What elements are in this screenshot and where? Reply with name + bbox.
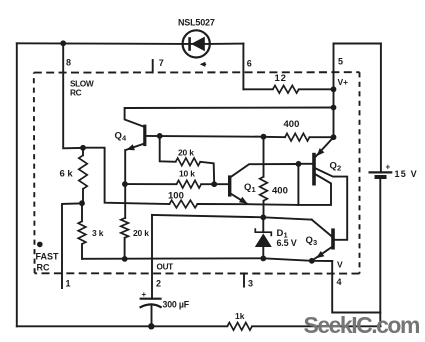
SLOW RC label <box>70 79 94 98</box>
Q1 collector wire <box>231 164 299 177</box>
Q2 base wire <box>299 163 313 165</box>
svg-text:12: 12 <box>275 73 287 84</box>
pin 8 wire <box>60 40 83 148</box>
svg-text:FAST: FAST <box>36 252 60 262</box>
wire: V- internal rail <box>82 258 332 261</box>
wire: 100 to Q2 base loop <box>197 203 298 206</box>
resistor 400 horizontal <box>264 119 334 141</box>
zener diode D1 <box>255 217 297 258</box>
svg-text:OUT: OUT <box>157 263 174 272</box>
svg-text:Q: Q <box>115 131 122 142</box>
svg-text:100: 100 <box>168 191 184 202</box>
svg-text:4: 4 <box>337 277 342 287</box>
Q1 emitter with arrow <box>231 194 248 204</box>
pin 1 wire <box>62 203 82 288</box>
node dot 20kv on rail <box>122 256 128 262</box>
resistor 6k <box>60 148 88 203</box>
wire: pin 4 drop and battery link <box>332 260 380 313</box>
light arrow under LED <box>200 62 206 67</box>
svg-text:1: 1 <box>66 279 71 289</box>
svg-text:RC: RC <box>70 88 82 98</box>
node dot 6k/3k/pin1 <box>79 200 85 206</box>
wire: bottom rail left of 1k <box>17 325 228 327</box>
battery 15V <box>369 44 418 327</box>
Q4 base wire to 400h <box>146 135 263 138</box>
node dot pin8/6k <box>80 145 86 151</box>
wire: Q4 collector rail <box>125 108 334 127</box>
resistor 400 vertical <box>260 137 288 218</box>
node dot Q3 emitter on rail <box>309 258 315 264</box>
svg-text:NSL5027: NSL5027 <box>178 18 215 28</box>
svg-text:6: 6 <box>247 59 252 69</box>
svg-text:3: 3 <box>248 279 253 289</box>
Q2 lower lead loop to base node <box>298 164 331 205</box>
svg-text:SeekIC.com: SeekIC.com <box>304 312 420 338</box>
svg-text:V: V <box>337 260 343 270</box>
wire: mid rail OUT corner to Q3 base <box>152 215 312 220</box>
svg-text:8: 8 <box>66 58 71 68</box>
Q4 emitter with arrow <box>125 144 143 218</box>
LED NSL5027 <box>178 18 215 58</box>
transistor Q1 <box>228 175 256 196</box>
wire: outer left vertical <box>16 43 18 326</box>
resistor R 1k <box>227 311 252 330</box>
transistor Q2 <box>312 153 341 186</box>
node dot V+ 12ohm <box>331 86 337 92</box>
Q2 emitter with arrow <box>316 137 334 156</box>
Q2 collector to Q3 collector <box>316 169 347 240</box>
svg-text:6 k: 6 k <box>60 169 74 180</box>
pin 7 stub <box>153 58 164 72</box>
Q3 emitter with arrow <box>312 248 331 261</box>
svg-text:+: + <box>142 290 147 299</box>
svg-text:7: 7 <box>159 58 164 68</box>
svg-text:3 k: 3 k <box>92 228 104 238</box>
svg-text:3: 3 <box>313 238 317 247</box>
node dot Q2 base/Q1 collector <box>296 161 302 167</box>
svg-text:5: 5 <box>338 57 343 67</box>
svg-text:10 k: 10 k <box>179 169 195 179</box>
svg-text:RC: RC <box>37 263 50 273</box>
svg-text:300 µF: 300 µF <box>163 300 190 310</box>
wire: pin 5 horizontal to battery <box>334 43 381 45</box>
node dot V+ 400 rail <box>331 134 337 140</box>
wire: pin 6 vertical <box>242 44 244 90</box>
svg-text:6.5 V: 6.5 V <box>277 238 297 248</box>
OUT line pin 2 <box>152 215 173 299</box>
svg-text:Q: Q <box>244 182 251 193</box>
svg-text:V+: V+ <box>338 77 349 87</box>
svg-text:1k: 1k <box>235 311 245 321</box>
svg-text:20 k: 20 k <box>133 228 149 238</box>
Q3 base diagonal <box>312 220 332 236</box>
wire: V+ vertical pin 5 <box>333 44 335 138</box>
FAST RC label with dot <box>36 242 60 273</box>
resistor 100 <box>168 191 197 208</box>
node dot D1 bottom <box>260 256 266 262</box>
resistor 20k vertical <box>121 218 149 259</box>
svg-text:Q: Q <box>330 161 337 172</box>
node dot cap on bottom rail <box>148 323 154 329</box>
svg-text:1: 1 <box>252 185 256 194</box>
wire: bend 104.6 to 100 resistor row <box>83 148 169 204</box>
IC package dashed outline <box>34 72 360 273</box>
svg-text:2: 2 <box>337 164 341 173</box>
node dot 20k/10k/Q1 base <box>211 181 217 187</box>
resistor 12 with leads <box>243 73 333 93</box>
pin 3 stub <box>244 273 253 288</box>
node dot Q4 base/20k drop <box>157 133 163 139</box>
wire: bottom rail right of 1k <box>252 325 381 327</box>
node dot 400h/Q4 base/400v <box>261 134 267 140</box>
wire: top rail to LED <box>17 42 183 45</box>
transistor Q4 <box>115 125 147 147</box>
svg-text:+: + <box>386 163 391 172</box>
transistor Q3 <box>306 228 335 249</box>
node dot V+ collector rail <box>331 105 337 111</box>
resistor 10k <box>125 169 228 189</box>
resistor 3k <box>78 203 103 259</box>
node dot 400v/D1 top <box>260 214 266 220</box>
wire: top rail LED to pin 6 corner <box>210 43 244 45</box>
node dot Q4 emitter/10k <box>122 181 128 187</box>
svg-text:400: 400 <box>284 119 300 130</box>
capacitor 300uF <box>140 290 190 326</box>
svg-text:400: 400 <box>272 186 288 197</box>
svg-text:2: 2 <box>156 279 161 289</box>
svg-text:15 V: 15 V <box>395 169 418 179</box>
svg-text:20 k: 20 k <box>178 148 194 158</box>
resistor 20k horizontal with drop <box>160 136 215 184</box>
svg-text:Q: Q <box>306 235 313 246</box>
